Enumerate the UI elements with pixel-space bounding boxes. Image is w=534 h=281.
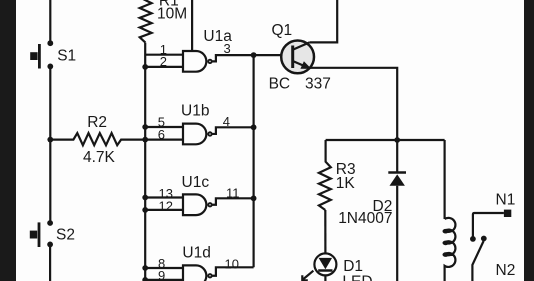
svg-text:1K: 1K xyxy=(336,175,356,192)
wire U1a vcc xyxy=(191,0,193,51)
right black bar xyxy=(524,0,534,281)
op-amp U1a nand gate xyxy=(183,51,212,72)
switch S1 xyxy=(30,40,53,69)
svg-text:3: 3 xyxy=(224,41,231,56)
svg-text:10M: 10M xyxy=(157,6,187,23)
LED D1 xyxy=(314,253,336,275)
node U1c output junction xyxy=(251,195,257,201)
left black bar xyxy=(0,0,16,281)
wire U1b pin5 xyxy=(145,126,183,128)
svg-text:1N4007: 1N4007 xyxy=(338,210,392,227)
wire U1a pin2 xyxy=(145,66,183,68)
wire N1 terminal xyxy=(473,213,504,239)
wire relay arm to N2 xyxy=(472,241,483,281)
op-amp U1c nand gate xyxy=(183,194,212,215)
wire left bus xyxy=(144,43,146,281)
svg-text:R2: R2 xyxy=(87,114,107,131)
svg-text:N2: N2 xyxy=(496,262,516,279)
wire S1 top xyxy=(49,0,51,41)
svg-text:BC: BC xyxy=(269,76,291,93)
node emitter rail junction xyxy=(394,137,400,143)
wire U1d pin9 xyxy=(145,279,183,281)
svg-text:4.7K: 4.7K xyxy=(83,149,116,166)
wire Q1 collector xyxy=(310,0,337,42)
node pin6 junction xyxy=(142,137,148,143)
wire U1d output xyxy=(212,267,253,275)
wire supply rail xyxy=(326,139,445,141)
wire S1 to S2 xyxy=(49,66,51,223)
svg-text:D1: D1 xyxy=(343,258,363,275)
svg-text:LED: LED xyxy=(342,274,372,281)
transistor Q1 xyxy=(281,41,314,74)
wire R3 to D1 xyxy=(324,210,326,253)
svg-text:11: 11 xyxy=(226,186,240,201)
wire U1c output xyxy=(212,198,253,204)
wire U1a pin1 xyxy=(145,54,183,56)
wire U1b pin6 xyxy=(145,139,183,141)
svg-text:U1c: U1c xyxy=(182,174,210,191)
svg-text:U1d: U1d xyxy=(182,245,210,262)
svg-text:12: 12 xyxy=(159,198,173,213)
node pin2 junction xyxy=(142,64,148,70)
relay coil K1 xyxy=(443,140,456,281)
resistor R2 xyxy=(50,133,145,145)
node pin9 junction xyxy=(142,277,148,281)
node N1 square terminal xyxy=(504,210,511,217)
svg-text:Q1: Q1 xyxy=(272,22,293,39)
svg-text:S2: S2 xyxy=(56,227,75,244)
op-amp U1d nand gate xyxy=(183,265,212,281)
svg-text:337: 337 xyxy=(305,76,331,93)
node U1a output junction xyxy=(251,52,257,58)
node pin5 junction xyxy=(142,124,148,130)
svg-text:4: 4 xyxy=(223,114,230,129)
op-amp U1b nand gate xyxy=(183,124,212,145)
wire Q1 emitter xyxy=(311,68,398,140)
switch S2 xyxy=(30,220,53,247)
node R2-left junction xyxy=(47,137,53,143)
svg-text:10: 10 xyxy=(225,257,239,272)
wire right bus xyxy=(253,55,255,267)
wire U1b output xyxy=(212,127,253,134)
diode D2 xyxy=(388,140,406,186)
svg-text:6: 6 xyxy=(158,127,165,142)
node U1b output junction xyxy=(251,124,257,130)
wire D2 bottom xyxy=(396,186,398,281)
wire Q1 base xyxy=(254,54,282,56)
node pin12 junction xyxy=(142,207,148,213)
LED arrow xyxy=(302,271,313,281)
svg-text:U1b: U1b xyxy=(181,103,209,120)
svg-text:2: 2 xyxy=(160,54,167,69)
wire U1c pin13 xyxy=(145,196,183,198)
wire U1d pin8 xyxy=(145,267,183,269)
relay contact common xyxy=(470,236,476,242)
node pin13 junction xyxy=(142,195,148,201)
wire U1c pin12 xyxy=(145,209,183,211)
resistor R1 xyxy=(140,0,152,43)
relay contact throw xyxy=(481,236,487,242)
wire D1 bottom xyxy=(324,275,326,281)
wire U1a output xyxy=(212,55,253,61)
svg-text:S1: S1 xyxy=(57,48,76,65)
wire S2 bottom xyxy=(49,244,51,281)
node pin8 junction xyxy=(142,265,148,271)
svg-text:N1: N1 xyxy=(496,192,516,209)
resistor R3 xyxy=(319,140,331,210)
svg-text:9: 9 xyxy=(158,268,165,281)
